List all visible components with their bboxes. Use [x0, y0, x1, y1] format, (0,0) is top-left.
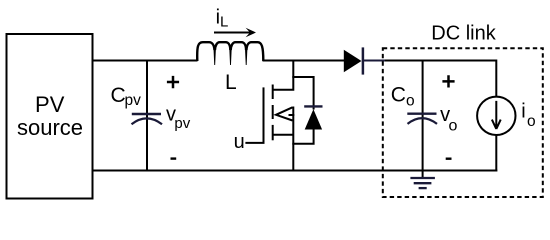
wire diode output segment (navy): [364, 60, 385, 62]
wire body diode anode lead: [292, 129, 313, 144]
DC link dashed box: [383, 48, 543, 197]
svg-text:DC link: DC link: [431, 23, 496, 45]
minus vo: [446, 157, 452, 159]
svg-text:Co: Co: [391, 84, 415, 110]
channel segment top: [272, 85, 274, 100]
svg-text:L: L: [225, 71, 237, 94]
wire Cpv lead: [146, 60, 148, 172]
body arrow: [276, 107, 293, 120]
svg-text:PV: PV: [35, 92, 65, 117]
capacitor Co: [407, 60, 437, 172]
wire source bottom stub: [273, 134, 294, 136]
channel segment bottom: [272, 125, 274, 140]
current source io: [477, 60, 515, 172]
svg-text:iL: iL: [216, 7, 229, 31]
ground bar 3: [419, 187, 427, 189]
wire source stub: [289, 114, 295, 116]
body diode cathode bar: [304, 105, 322, 107]
wire bottom rail: [93, 170, 498, 172]
wire source lead: [292, 107, 294, 172]
plus vo: [442, 75, 454, 87]
capacitor Cpv: [132, 60, 163, 172]
wire top rail from diode into DC link: [364, 60, 497, 62]
wire io upper lead: [495, 60, 497, 97]
wire top rail from PV box to inductor: [93, 60, 198, 62]
wire body diode top branch: [292, 77, 313, 110]
current source arrow: [492, 101, 501, 129]
wire Co lead: [422, 60, 424, 172]
ground bar 2: [414, 182, 432, 184]
PV source box: [7, 34, 93, 199]
svg-text:u: u: [234, 131, 245, 153]
inductor crossing spikes: [214, 49, 248, 66]
Co top plate: [407, 112, 436, 114]
svg-text:source: source: [17, 115, 83, 140]
current source circle: [477, 97, 515, 135]
diode cathode bar: [362, 47, 365, 74]
wire drain lead: [273, 60, 294, 90]
svg-text:vo: vo: [440, 104, 457, 135]
Cpv top plate: [132, 113, 161, 115]
diode body (antiparallel): [292, 77, 322, 144]
svg-text:Cpv: Cpv: [111, 84, 142, 109]
Co curved plate: [408, 118, 438, 124]
minus vpv: [171, 157, 177, 159]
current arrow iL: [214, 28, 256, 37]
wire gate lead: [245, 137, 263, 143]
ground: [410, 171, 435, 189]
ground bar 1: [410, 177, 435, 179]
wire top rail from inductor to diode: [263, 60, 345, 62]
body diode triangle: [305, 109, 322, 129]
inductor L: [197, 42, 263, 61]
svg-text:io: io: [521, 100, 535, 130]
transistor u (MOSFET): [264, 60, 295, 172]
wire io lower lead: [495, 135, 497, 172]
gate bar: [263, 87, 265, 137]
diode triangle: [344, 50, 362, 72]
svg-text:vpv: vpv: [166, 103, 191, 132]
diode D1 (series): [344, 47, 363, 74]
wire ground stub: [422, 171, 424, 179]
Cpv curved plate: [132, 118, 163, 124]
plus vpv: [167, 76, 179, 88]
channel segment middle: [272, 105, 274, 119]
